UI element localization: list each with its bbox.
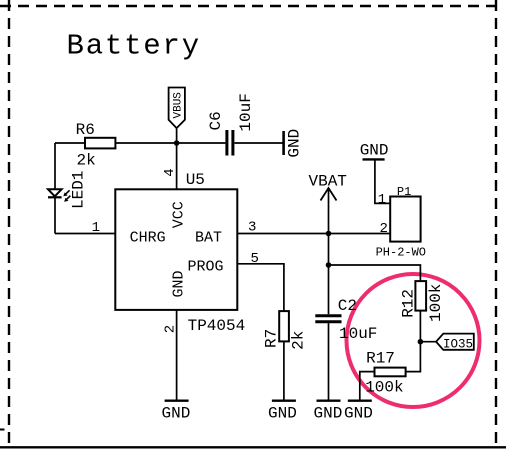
svg-text:GND: GND: [314, 405, 343, 423]
wire VBAT stem: [328, 189, 330, 234]
svg-text:CHRG: CHRG: [130, 229, 166, 246]
junction dot R12/R17/IO35 node: [418, 339, 424, 345]
svg-text:PROG: PROG: [187, 259, 223, 276]
svg-text:Battery: Battery: [67, 29, 201, 62]
svg-text:100k: 100k: [427, 284, 445, 322]
svg-text:P1: P1: [397, 185, 411, 199]
wire junction to R12: [329, 265, 421, 281]
junction dot C2/R12 branch: [326, 262, 332, 268]
wire node to IO35 flag: [420, 341, 436, 343]
svg-text:1: 1: [92, 220, 100, 236]
svg-text:GND: GND: [344, 405, 373, 423]
svg-text:5: 5: [251, 251, 259, 267]
highlight circle: [347, 274, 480, 407]
svg-text:2k: 2k: [289, 331, 307, 350]
svg-text:PH-2-WO: PH-2-WO: [376, 245, 426, 259]
svg-text:GND: GND: [286, 129, 304, 158]
svg-text:VCC: VCC: [170, 201, 187, 228]
ground below R17: [344, 401, 373, 423]
svg-text:R7: R7: [262, 329, 280, 348]
wire R17 to GND: [360, 372, 375, 401]
ground below C2: [314, 401, 343, 423]
wire pin 5 to R7: [237, 264, 284, 311]
resistor R12: [415, 281, 426, 311]
svg-text:C6: C6: [207, 111, 225, 130]
svg-text:R12: R12: [400, 289, 418, 318]
svg-text:2k: 2k: [77, 151, 96, 169]
junction dot VBUS net: [174, 140, 180, 146]
wire R6 to junction: [115, 142, 176, 144]
svg-text:10uF: 10uF: [339, 325, 377, 343]
ground above P1: [360, 141, 389, 159]
resistor R17: [375, 368, 406, 377]
wire R7 to GND: [283, 341, 285, 400]
wire C2 to GND: [328, 323, 330, 400]
capacitor C6: [227, 130, 233, 156]
wire pin 4: [176, 143, 178, 189]
svg-text:GND: GND: [170, 270, 187, 297]
svg-text:GND: GND: [268, 405, 297, 423]
svg-text:100k: 100k: [365, 378, 403, 396]
ground below R7: [268, 401, 297, 423]
wire pin 3 BAT to P1 pin 2: [237, 233, 390, 235]
wire LED1 to corner: [54, 197, 56, 234]
svg-text:R6: R6: [76, 121, 95, 139]
connector P1 PH-2-WO: [390, 197, 420, 242]
LED D LED1: [48, 171, 87, 209]
svg-text:IO35: IO35: [443, 337, 473, 351]
svg-text:GND: GND: [360, 141, 389, 159]
wire junction to C2 branch: [328, 234, 330, 266]
wire VBUS net left of R6: [55, 142, 85, 144]
svg-text:BAT: BAT: [195, 229, 222, 246]
net flag IO35: [436, 334, 474, 352]
wire R12 to node: [419, 311, 421, 342]
wire node to R17: [406, 342, 421, 372]
wire left vertical above LED1: [54, 143, 56, 189]
IC U5 TP4054: [115, 189, 237, 310]
svg-text:LED1: LED1: [69, 171, 87, 209]
junction dot VBAT net: [326, 231, 332, 237]
svg-text:R17: R17: [366, 350, 395, 368]
wire VBUS flag stem: [176, 128, 178, 143]
resistor R7: [279, 311, 289, 341]
ground right of C6: [284, 129, 304, 158]
svg-text:10uF: 10uF: [237, 93, 255, 131]
power flag VBAT: [309, 172, 347, 200]
resistor R6: [85, 138, 115, 149]
svg-text:2: 2: [162, 325, 178, 333]
svg-text:4: 4: [162, 168, 178, 176]
wire pin 2 to GND: [176, 310, 178, 400]
svg-text:VBAT: VBAT: [309, 172, 347, 190]
ground below pin 2: [162, 401, 191, 423]
svg-text:U5: U5: [186, 171, 205, 189]
capacitor C2: [315, 316, 341, 322]
svg-text:GND: GND: [162, 405, 191, 423]
svg-text:1: 1: [378, 192, 386, 208]
power flag VBUS: [169, 88, 185, 129]
svg-text:2: 2: [380, 221, 388, 237]
wire pin 1: [55, 233, 115, 235]
svg-text:VBUS: VBUS: [173, 92, 185, 119]
svg-text:TP4054: TP4054: [188, 317, 246, 335]
wire C6 to GND bar: [234, 142, 282, 144]
wire GND to P1 pin 1: [375, 159, 390, 203]
svg-text:C2: C2: [338, 297, 357, 315]
svg-text:3: 3: [248, 220, 256, 236]
wire junction to C6: [177, 142, 226, 144]
wire junction to C2 top: [328, 265, 330, 314]
